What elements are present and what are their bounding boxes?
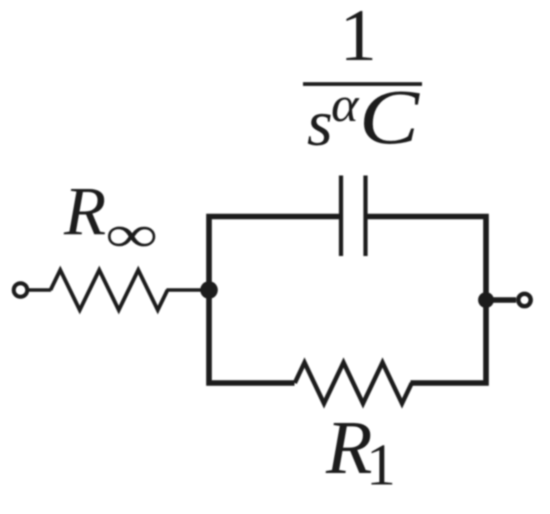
wire node B to terminal T2: [486, 297, 516, 302]
wire R-inf to node A: [167, 288, 210, 292]
node B (right junction dot): [478, 292, 494, 308]
wire: from bottom-left corner up left side of box to capacitor left lead: [209, 217, 339, 384]
label R1: [325, 406, 396, 498]
svg-text:1: 1: [340, 0, 377, 77]
svg-text:α: α: [331, 76, 360, 132]
wire: from capacitor right lead across top, down right side of box to R1: [368, 217, 487, 384]
resistor R1 (zigzag): [295, 363, 412, 404]
capacitor C left plate: [339, 176, 343, 257]
svg-text:∞: ∞: [106, 207, 157, 264]
resistor R-infinity (zigzag): [51, 270, 168, 310]
terminal T2 (right open circle): [518, 294, 530, 306]
node A (left junction dot): [200, 281, 218, 299]
label 1/(s^alpha C): fraction bar: [303, 82, 422, 86]
svg-text:1: 1: [366, 432, 396, 498]
wire T1 to R-inf: [29, 288, 51, 292]
svg-text:R: R: [63, 174, 106, 250]
svg-text:C: C: [359, 74, 420, 161]
svg-text:s: s: [307, 87, 333, 160]
label 1/(s^alpha C): denominator s^alpha C: [307, 74, 420, 161]
terminal T1 (left open circle): [14, 283, 28, 297]
label R-infinity: [63, 174, 157, 264]
capacitor C right plate: [363, 176, 367, 257]
